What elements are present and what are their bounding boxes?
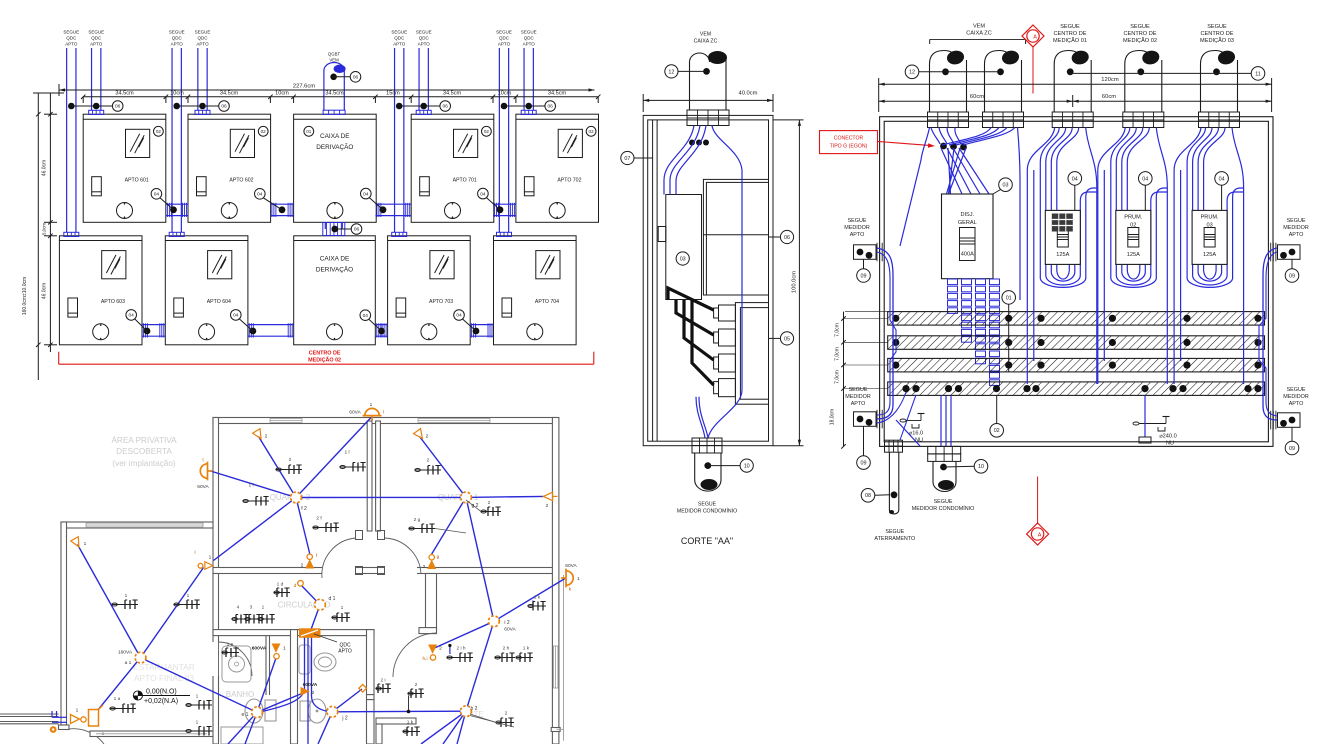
bottom conduit condominio	[928, 446, 975, 491]
inter-box connector top 4	[493, 203, 516, 217]
svg-text:06: 06	[784, 235, 790, 241]
svg-text:12: 12	[668, 69, 674, 75]
svg-text:02: 02	[994, 428, 1000, 434]
svg-text:02: 02	[261, 129, 267, 134]
wall quarto2 left	[213, 418, 219, 571]
label i2 60VA	[504, 620, 516, 633]
corte AA lower box 05	[735, 303, 768, 405]
svg-text:j 2: j 2	[341, 716, 348, 722]
terrace wall horizontal	[61, 522, 213, 528]
svg-text:46.0cm: 46.0cm	[42, 283, 48, 299]
svg-text:2: 2	[426, 434, 429, 440]
ceiling light j2	[327, 706, 338, 717]
label circle 01 caixa top	[304, 126, 314, 136]
svg-text:05: 05	[784, 336, 790, 342]
svg-text:SEGUE: SEGUE	[391, 30, 407, 35]
riser conduit pair 1 (short)	[89, 48, 104, 115]
svg-text:QDC: QDC	[198, 36, 209, 41]
svg-text:7,0cm: 7,0cm	[835, 347, 841, 361]
svg-text:01: 01	[1006, 295, 1012, 301]
svg-text:2: 2	[505, 711, 508, 717]
svg-text:06: 06	[353, 75, 359, 81]
label segue aterramento	[874, 529, 915, 542]
svg-text:04: 04	[456, 313, 462, 319]
riser conduit pair 2 (short)	[195, 48, 210, 115]
svg-text:MEDIÇÃO 02: MEDIÇÃO 02	[308, 357, 341, 364]
outlet quarto2 top	[276, 465, 302, 474]
door arc quarto1	[385, 538, 421, 574]
svg-text:10: 10	[744, 464, 750, 470]
svg-text:02: 02	[484, 129, 490, 134]
corte AA bottom conduit tube	[695, 453, 740, 491]
wire f2 to switch-l area	[214, 498, 297, 561]
junction dots + circle 06 pair 2	[173, 101, 229, 112]
svg-text:2 g: 2 g	[414, 517, 421, 523]
feeder tube 1	[928, 49, 969, 127]
svg-text:125A: 125A	[1203, 252, 1216, 258]
labels switch f	[301, 553, 318, 569]
wire g2 to switch g	[432, 497, 466, 554]
svg-text:CORTE "AA": CORTE "AA"	[681, 536, 733, 546]
aterramento pipe	[885, 440, 903, 514]
svg-text:1: 1	[209, 555, 212, 561]
bath walls bottom	[367, 700, 375, 744]
circle 09 right lower	[1285, 441, 1299, 455]
svg-text:1: 1	[102, 731, 105, 737]
label VEM CAIXA ZC	[930, 24, 1026, 45]
wire d1 to qdc	[311, 605, 320, 630]
svg-text:APTO 601: APTO 601	[125, 178, 149, 184]
svg-text:46.0cm: 46.0cm	[42, 160, 48, 176]
svg-text:DERIVAÇÃO: DERIVAÇÃO	[316, 265, 353, 274]
svg-text:g: g	[437, 555, 440, 560]
riser conduit pair 1 (long)	[64, 48, 79, 237]
svg-text:MEDIDOR: MEDIDOR	[845, 394, 871, 400]
outlet quarto2 right	[340, 463, 366, 472]
junction diamond i	[359, 684, 367, 692]
wall corridor bottom right	[367, 630, 375, 695]
label 160VA a1	[118, 650, 133, 667]
svg-text:SEGUE: SEGUE	[849, 387, 868, 393]
label circle 04 top 2	[254, 189, 282, 210]
SEGUE QDC APTO labels pair 2	[169, 30, 211, 47]
wire f2 to quarto2 arrow	[259, 437, 297, 498]
outlet quarto2 left	[243, 497, 269, 506]
right wall cap	[551, 728, 560, 732]
left lower stub label	[845, 387, 871, 407]
panel outline	[880, 117, 1273, 447]
outlet suite small	[408, 689, 424, 698]
labels switch g	[423, 555, 440, 570]
PRUM 01 breaker box	[1045, 210, 1080, 264]
circle 09 left upper	[857, 269, 871, 283]
svg-text:09: 09	[861, 273, 867, 279]
label circle 04 bottom 4	[454, 310, 476, 331]
circle 04 PRUM 02	[1139, 172, 1153, 211]
sconce left terrace 60VA l	[200, 462, 212, 481]
svg-text:2: 2	[289, 457, 292, 463]
svg-text:CENTRO DE: CENTRO DE	[1201, 31, 1234, 37]
outlet corridor 2i	[376, 684, 391, 693]
svg-text:f 2: f 2	[301, 506, 307, 512]
dimension 40.0cm	[643, 91, 773, 113]
terrace wall cap	[59, 725, 70, 730]
svg-text:34.5cm: 34.5cm	[325, 91, 344, 97]
QGBT dot + circle 06	[330, 72, 361, 83]
wall segment below suite door	[367, 695, 375, 700]
svg-text:09: 09	[1289, 273, 1295, 279]
svg-text:ATERRAMENTO: ATERRAMENTO	[874, 536, 915, 542]
circle 04 PRUM 03	[1215, 172, 1229, 211]
svg-text:7,0cm: 7,0cm	[835, 370, 841, 384]
inter-box connector top 1	[166, 203, 188, 217]
corte AA bottom connector	[692, 438, 722, 453]
svg-text:i 2: i 2	[504, 620, 510, 626]
svg-text:MEDIDOR CONDOMÍNIO: MEDIDOR CONDOMÍNIO	[912, 505, 975, 512]
dimension 120cm	[879, 77, 1272, 112]
outlet estar right	[186, 701, 212, 710]
svg-text:10cm: 10cm	[498, 91, 512, 97]
corte AA circle 10	[740, 459, 753, 472]
dimension 100.0cm	[773, 120, 804, 446]
svg-text:SEGUE: SEGUE	[1287, 218, 1306, 224]
svg-text:MEDIDOR CONDOMÍNIO: MEDIDOR CONDOMÍNIO	[677, 508, 737, 515]
svg-text:MEDIÇÃO 01: MEDIÇÃO 01	[1053, 37, 1087, 44]
label SEGUE CENTRO DE MEDICAO 03	[1200, 24, 1234, 44]
svg-text:SEGUE: SEGUE	[195, 30, 211, 35]
svg-text:60VA: 60VA	[504, 627, 516, 633]
svg-text:34.5cm: 34.5cm	[548, 91, 567, 97]
estar west walls	[0, 714, 59, 724]
svg-text:60VA: 60VA	[197, 484, 209, 490]
svg-text:1: 1	[283, 646, 286, 652]
svg-text:4: 4	[237, 605, 240, 611]
circle 08	[861, 489, 890, 503]
svg-text:VEM: VEM	[700, 32, 711, 38]
meter box APTO 703	[388, 236, 471, 345]
leader h2 to outlet	[470, 714, 514, 727]
svg-text:QDC: QDC	[172, 36, 183, 41]
svg-text:03: 03	[1003, 183, 1009, 189]
qdc apto box	[299, 628, 352, 654]
meter box APTO 702	[516, 114, 599, 222]
wire f2 to top sconce	[296, 418, 371, 498]
inter-box connector top 2	[270, 203, 293, 217]
switch g circle	[429, 555, 434, 560]
svg-text:DISJ.: DISJ.	[960, 212, 974, 218]
dimension 227.6cm	[59, 84, 595, 97]
svg-text:10cm: 10cm	[275, 91, 289, 97]
PRUM 01 dark overprint	[1052, 214, 1073, 232]
svg-text:SEGUE: SEGUE	[885, 529, 904, 535]
svg-text:04: 04	[1142, 176, 1148, 182]
svg-text:2: 2	[265, 434, 268, 440]
outlet circulacao right	[332, 613, 350, 622]
label circle 06 caixa link	[351, 224, 362, 235]
svg-text:CAIXA ZC: CAIXA ZC	[966, 31, 992, 37]
svg-text:SEGUE: SEGUE	[1287, 387, 1306, 393]
section marker A top	[1022, 25, 1044, 94]
svg-text:2: 2	[312, 690, 315, 696]
wire i2 to switch hi	[435, 621, 494, 648]
ceiling light e1	[252, 707, 263, 718]
svg-text:125A: 125A	[1056, 252, 1069, 258]
svg-text:2 f: 2 f	[316, 516, 322, 522]
svg-text:5,0cm: 5,0cm	[42, 223, 47, 235]
dimension row 34.5/10cm	[81, 91, 600, 103]
svg-text:125A: 125A	[1127, 252, 1140, 258]
svg-text:60VA: 60VA	[565, 563, 577, 569]
outlet suite 1k	[516, 653, 533, 662]
switch hi triangle	[429, 645, 436, 652]
svg-text:DERIVAÇÃO: DERIVAÇÃO	[316, 142, 353, 151]
banho2 toilet	[300, 699, 326, 723]
riser conduit pair 2 (long)	[169, 48, 184, 237]
junction dots + circle 06 pair 1	[68, 101, 123, 112]
wire e1 down-left 1	[228, 712, 257, 744]
svg-text:1: 1	[196, 720, 199, 726]
wall below quartos	[213, 568, 555, 574]
svg-text:34.5cm: 34.5cm	[443, 91, 462, 97]
circle 11 panel	[1070, 67, 1265, 81]
outlet circulacao A	[232, 615, 249, 624]
meter box APTO 704	[494, 236, 577, 345]
right edge wire bundle	[1259, 248, 1277, 420]
wire a1 to terrace arrow	[78, 545, 141, 658]
circle 03 panel	[993, 178, 1012, 194]
label circle 02 of APTO 702	[586, 126, 596, 136]
PRUM 02 breaker box	[1116, 210, 1151, 264]
svg-text:GERAL: GERAL	[958, 220, 977, 226]
svg-text:A: A	[1038, 532, 1042, 538]
labels shower2	[303, 682, 318, 696]
svg-text:34.5cm: 34.5cm	[115, 91, 134, 97]
wall banho middle vertical	[291, 630, 298, 744]
wire a1 to qdc-symbol bottom-left	[98, 658, 141, 711]
disj segmented drops to busbars	[948, 279, 1000, 385]
svg-text:APTO: APTO	[1289, 232, 1304, 238]
busbar 1	[888, 312, 1265, 326]
svg-text:0,00(N.O): 0,00(N.O)	[146, 689, 177, 696]
labels shower1	[252, 646, 286, 652]
svg-text:1 k: 1 k	[407, 720, 414, 726]
svg-text:QDC: QDC	[499, 36, 510, 41]
labels sconce top	[349, 402, 384, 416]
suite door arc	[393, 633, 437, 677]
wire a1 to e1	[141, 658, 258, 713]
inter-box connector top 3	[375, 203, 411, 217]
svg-text:15cm: 15cm	[386, 91, 400, 97]
ground symbol 240.0 NU	[1133, 417, 1177, 447]
corte AA circle 03	[676, 252, 689, 265]
svg-text:h 2: h 2	[471, 706, 478, 712]
ground symbol 16.0 NU	[900, 414, 925, 444]
svg-text:1: 1	[341, 605, 344, 611]
svg-text:06: 06	[443, 104, 449, 110]
outlet quarto2 wall	[313, 523, 339, 532]
PRUM 03 breaker box	[1192, 210, 1227, 264]
svg-text:SEGUE: SEGUE	[496, 30, 512, 35]
outlet suite bottom 2	[496, 718, 514, 727]
QGBT VEM conduit	[323, 52, 346, 115]
svg-text:06: 06	[221, 104, 227, 110]
label circle 04 bottom 2	[231, 310, 253, 331]
corte AA segue medidor condominio label	[677, 502, 737, 515]
svg-text:2 i: 2 i	[380, 678, 385, 684]
svg-text:APTO: APTO	[171, 42, 184, 47]
conector tipo G dots	[940, 143, 967, 151]
wire comb riser suite	[448, 644, 451, 654]
svg-text:QDC: QDC	[66, 36, 77, 41]
wire g2 to quarto1 arrow	[420, 437, 467, 498]
wall between quartos B	[376, 421, 381, 531]
circle 12 panel	[905, 65, 1000, 79]
svg-text:2: 2	[439, 646, 442, 652]
left upper stub SEGUE MEDIDOR APTO	[844, 218, 870, 238]
window top wall B	[418, 419, 490, 423]
circle 04 PRUM 01	[1068, 172, 1082, 211]
svg-text:SEGUE: SEGUE	[169, 30, 185, 35]
wire comb riser 1k suite	[532, 601, 534, 606]
left lower stub conduit	[854, 410, 883, 456]
wire h2 down 3	[457, 711, 466, 744]
wire h2 down-left 1	[421, 711, 466, 744]
svg-text:160VA: 160VA	[118, 650, 133, 656]
door opening quarto2	[322, 567, 356, 575]
outlet quarto1 top	[415, 466, 441, 475]
svg-text:CENTRO DE: CENTRO DE	[309, 351, 341, 357]
svg-text:2: 2	[488, 500, 491, 506]
wires feeder to PRUM 02	[1098, 128, 1168, 385]
svg-text:APTO: APTO	[393, 42, 406, 47]
left upper stub conduit	[854, 243, 883, 269]
svg-text:MEDIDOR: MEDIDOR	[844, 225, 870, 231]
svg-text:CENTRO DE: CENTRO DE	[1054, 31, 1087, 37]
svg-text:a 1: a 1	[125, 660, 132, 666]
svg-text:APTO 602: APTO 602	[229, 178, 253, 184]
svg-text:04: 04	[363, 313, 369, 319]
svg-text:APTO: APTO	[338, 649, 352, 655]
inter-box connector bottom 3	[375, 323, 387, 337]
red bracket CENTRO DE MEDICAO 02	[59, 351, 594, 365]
banho2 cabinet	[299, 645, 310, 674]
busbar 2	[888, 336, 1265, 350]
shower point 600VA-1 triangle	[272, 644, 279, 651]
banho door opening	[212, 642, 220, 676]
wall between quartos A	[367, 421, 372, 531]
svg-text:SEGUE: SEGUE	[521, 30, 537, 35]
svg-text:04: 04	[363, 191, 369, 197]
svg-text:PRUM.: PRUM.	[1201, 215, 1219, 221]
svg-text:APTO 704: APTO 704	[535, 299, 559, 305]
svg-text:QDC: QDC	[524, 36, 535, 41]
door opening quarto1	[384, 567, 417, 575]
svg-text:04: 04	[1072, 176, 1078, 182]
svg-text:1: 1	[125, 593, 128, 599]
svg-text:04: 04	[480, 191, 486, 197]
outlet quarto1 wall	[409, 524, 435, 533]
svg-text:SEGUE: SEGUE	[848, 218, 867, 224]
right lower stub label	[1283, 387, 1309, 407]
window right wall	[553, 646, 558, 688]
svg-text:2: 2	[427, 458, 430, 464]
svg-text:60cm: 60cm	[970, 94, 984, 100]
outlet suite 1k low	[403, 727, 420, 736]
orange corner dot	[50, 726, 57, 733]
arrow l	[205, 562, 213, 570]
circle 02 busbars	[990, 395, 1004, 437]
wall corridor/banho top	[213, 630, 374, 636]
svg-text:1: 1	[370, 402, 373, 408]
meter box APTO 701	[411, 114, 494, 222]
busbar connection dots	[892, 315, 1261, 393]
riser conduit pair 4 (long)	[497, 48, 512, 237]
wire qdc drops	[262, 638, 328, 744]
svg-text:34.5cm: 34.5cm	[220, 91, 239, 97]
svg-text:2: 2	[546, 503, 549, 509]
wire d1 to d switch	[301, 585, 320, 605]
outlet terrace 1b	[174, 600, 200, 609]
svg-text:1: 1	[84, 541, 87, 547]
svg-text:PRUM.: PRUM.	[1124, 215, 1142, 221]
switch f circle	[307, 554, 312, 559]
svg-text:06: 06	[354, 227, 360, 233]
svg-text:APTO 703: APTO 703	[429, 299, 453, 305]
wire stub blue corner	[52, 711, 67, 722]
wires tubes to conector G to disj	[900, 128, 1020, 301]
outlet estar 1a	[110, 704, 136, 713]
wire e1 down-left 2	[245, 712, 257, 744]
right lower stub conduit	[1271, 411, 1300, 442]
svg-text:QGBT: QGBT	[328, 52, 341, 57]
outlet terrace 1a	[112, 600, 138, 609]
meter box APTO 603	[59, 236, 142, 345]
label SEGUE CENTRO DE MEDICAO 01	[1053, 24, 1087, 44]
svg-text:h,i: h,i	[422, 656, 427, 662]
svg-text:APTO: APTO	[1289, 401, 1304, 407]
svg-text:120cm: 120cm	[1101, 77, 1119, 83]
feeder tube 2	[983, 49, 1024, 127]
SEGUE QDC APTO labels pair 1	[63, 30, 104, 47]
inter-box connector bottom 4	[470, 323, 493, 337]
svg-text:l: l	[194, 550, 195, 556]
svg-text:06: 06	[548, 104, 554, 110]
wire f2 to switch f	[296, 498, 310, 554]
svg-text:600VA: 600VA	[252, 646, 267, 652]
banho1 shower	[222, 646, 251, 682]
label circle 04 top 3	[361, 188, 384, 210]
SEGUE QDC APTO labels pair 3	[391, 30, 431, 47]
svg-text:04: 04	[154, 192, 160, 198]
wall top exterior	[213, 418, 555, 424]
homerun arrow terrace	[71, 537, 83, 549]
svg-text:02: 02	[156, 129, 162, 134]
door jambs quartos	[356, 531, 385, 575]
svg-text:04: 04	[233, 313, 239, 319]
circle 09 right upper	[1285, 269, 1299, 283]
outlet circulacao 1d	[274, 588, 290, 597]
wires into bottom conduit	[896, 395, 951, 446]
right upper stub label	[1283, 218, 1309, 238]
svg-text:7,0cm: 7,0cm	[835, 323, 841, 337]
wire i2 to h2	[466, 621, 494, 711]
svg-text:MEDIÇÃO 03: MEDIÇÃO 03	[1200, 37, 1234, 44]
meter box APTO 602	[188, 114, 271, 222]
wire comb riser suite small	[407, 696, 411, 714]
svg-text:QDC: QDC	[419, 36, 430, 41]
svg-text:04: 04	[129, 313, 135, 319]
feeder tube 3	[1052, 49, 1093, 127]
